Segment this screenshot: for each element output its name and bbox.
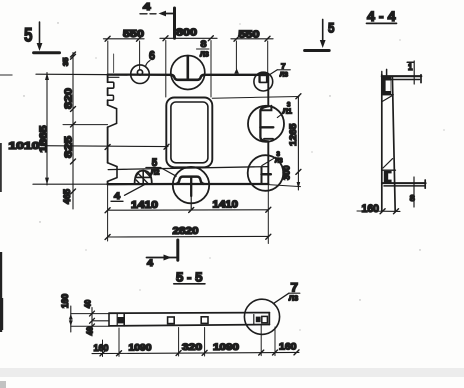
svg-text:1410: 1410 bbox=[131, 200, 159, 211]
svg-text:160: 160 bbox=[94, 343, 109, 354]
svg-text:4 - 4: 4 - 4 bbox=[367, 8, 396, 24]
section marker 5 right bbox=[305, 19, 335, 50]
top right corner detail circle 7 bbox=[254, 62, 290, 91]
dim line 2820 bbox=[105, 226, 271, 239]
dim line 1410 1410 bbox=[105, 184, 271, 243]
section view 4-4 bbox=[382, 61, 426, 212]
scan speckles bbox=[23, 22, 444, 330]
middle right edge slot detail circle bbox=[248, 103, 292, 142]
svg-text:7: 7 bbox=[291, 280, 299, 294]
svg-text:160: 160 bbox=[279, 342, 297, 353]
svg-text:Л3: Л3 bbox=[200, 52, 209, 59]
svg-text:820: 820 bbox=[64, 87, 75, 109]
svg-text:4: 4 bbox=[143, 2, 151, 13]
svg-text:1090: 1090 bbox=[213, 342, 239, 353]
hole detail 6 bbox=[131, 49, 156, 84]
svg-text:Л3: Л3 bbox=[280, 71, 289, 78]
svg-text:320: 320 bbox=[182, 342, 202, 353]
svg-text:825: 825 bbox=[64, 135, 75, 158]
svg-text:35: 35 bbox=[61, 58, 70, 67]
reference triangle mark on top edge bbox=[234, 68, 239, 73]
bottom slot with detail circle bbox=[173, 167, 209, 210]
section marker 4 bottom bbox=[147, 240, 178, 268]
svg-text:1410: 1410 bbox=[213, 199, 239, 210]
svg-text:5: 5 bbox=[24, 26, 33, 47]
bottom dims of 5-5 bbox=[92, 326, 299, 357]
35 offset reference line at top-left corner bbox=[108, 76, 119, 78]
bottom right edge slot detail circle bbox=[248, 152, 284, 191]
svg-text:465: 465 bbox=[62, 188, 73, 204]
title 5-5 bbox=[174, 271, 205, 285]
dimension 550 top-left bbox=[104, 29, 145, 74]
svg-text:Л3: Л3 bbox=[275, 159, 283, 165]
dimension 550 top-right bbox=[231, 30, 273, 75]
dimension 800 top bbox=[160, 28, 217, 98]
svg-text:2820: 2820 bbox=[173, 226, 200, 237]
svg-text:1: 1 bbox=[408, 62, 413, 72]
hidden rib line bbox=[108, 167, 268, 170]
label 5 / Л2 for bottom slot bbox=[146, 157, 176, 176]
right dim line 1265 / 300 bbox=[269, 94, 301, 190]
svg-text:550: 550 bbox=[239, 30, 261, 41]
svg-text:1090: 1090 bbox=[129, 342, 152, 353]
svg-text:1865: 1865 bbox=[39, 125, 50, 153]
svg-text:8: 8 bbox=[201, 39, 207, 50]
svg-text:Л3: Л3 bbox=[289, 294, 298, 303]
svg-text:40: 40 bbox=[83, 300, 93, 309]
svg-text:550: 550 bbox=[123, 29, 145, 40]
extension line from opening top to right dim bbox=[212, 97, 299, 99]
svg-text:4: 4 bbox=[114, 191, 120, 201]
svg-text:160: 160 bbox=[362, 203, 380, 215]
svg-text:1010: 1010 bbox=[9, 141, 41, 152]
svg-text:4: 4 bbox=[147, 258, 153, 268]
left dim line 1865 bbox=[39, 73, 50, 186]
svg-text:Л2: Л2 bbox=[151, 170, 160, 177]
dim 1010 bbox=[9, 141, 170, 152]
svg-text:8: 8 bbox=[410, 193, 415, 203]
svg-text:3: 3 bbox=[277, 152, 281, 158]
svg-text:160: 160 bbox=[60, 294, 70, 309]
dim 160 of section 4-4 bbox=[357, 203, 400, 215]
svg-text:800: 800 bbox=[176, 28, 198, 39]
dome insert detail pos 4 bbox=[111, 171, 152, 202]
top slot with detail circle 8 bbox=[170, 39, 209, 90]
section marker 4 top bbox=[140, 2, 175, 38]
svg-text:300: 300 bbox=[282, 166, 292, 181]
section view 5-5 bar bbox=[109, 313, 269, 326]
left dims of 5-5: 160 and 40/40 bbox=[60, 294, 109, 336]
section marker 5 left bbox=[24, 22, 60, 53]
central opening double wall bbox=[166, 98, 212, 168]
svg-text:5: 5 bbox=[328, 20, 335, 36]
plate outline with edge notches bbox=[33, 74, 268, 184]
svg-text:5 - 5: 5 - 5 bbox=[176, 271, 203, 285]
svg-text:1265: 1265 bbox=[288, 123, 299, 146]
title 4-4 bbox=[367, 8, 397, 24]
svg-text:40: 40 bbox=[85, 327, 95, 336]
detail circle 7/Л3 on 5-5 bbox=[244, 280, 299, 334]
left inner dim line 35/820/825/465 bbox=[61, 52, 108, 209]
